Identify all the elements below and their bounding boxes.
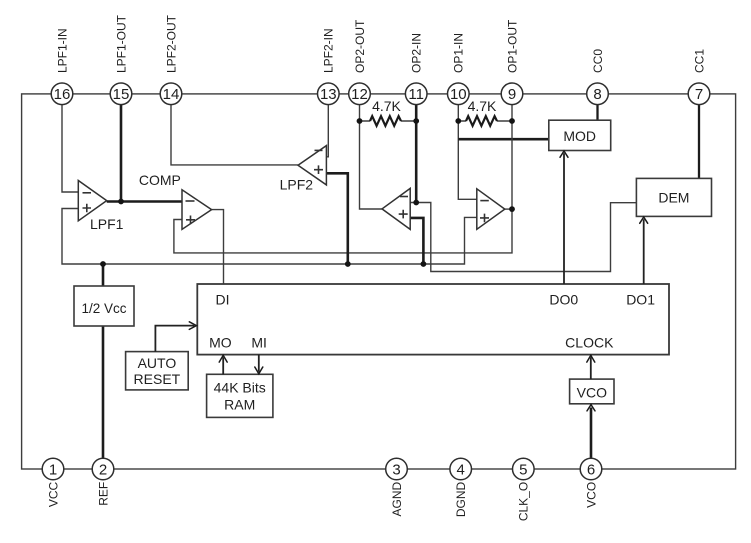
pin 3 AGND	[386, 458, 408, 516]
svg-text:1: 1	[49, 461, 57, 478]
svg-text:VCC: VCC	[46, 481, 60, 507]
svg-text:COMP: COMP	[139, 172, 181, 188]
block AUTO RESET	[126, 352, 189, 390]
svg-text:AUTO: AUTO	[138, 355, 177, 371]
svg-text:CC1: CC1	[692, 49, 706, 73]
resistor R1 4.7K zigzag	[370, 116, 401, 126]
svg-text:15: 15	[113, 86, 130, 103]
op-amp COMP	[139, 172, 212, 230]
block VCO	[570, 379, 614, 404]
svg-text:7: 7	[695, 86, 703, 103]
op-amp OP2 (mirrored)	[382, 188, 410, 229]
pin 4 DGND	[450, 458, 472, 517]
svg-text:MOD: MOD	[563, 128, 596, 144]
svg-text:4: 4	[457, 461, 465, 478]
junction dot LPF2+ on reference line	[345, 261, 351, 267]
junction dot R2 left / pin10	[455, 118, 461, 124]
pin 14 LPF2-OUT	[160, 14, 182, 104]
svg-text:12: 12	[351, 86, 368, 103]
svg-text:CLK_O: CLK_O	[517, 482, 531, 521]
wire pin15 to LPF1 output (bold)	[120, 105, 123, 202]
arrow pin6 to VCO (bold)	[587, 405, 595, 459]
junction dot OP2+ on reference line	[421, 261, 427, 267]
arrow DO0 to MOD	[560, 151, 568, 284]
wire reference node to 1/2 Vcc box	[102, 264, 105, 287]
svg-text:DGND: DGND	[454, 481, 468, 517]
svg-text:OP1-OUT: OP1-OUT	[505, 19, 519, 73]
wire OP2 non-inverting input to reference line (bold)	[410, 218, 423, 264]
wire pin11 to OP2 inverting input (bold)	[415, 105, 418, 203]
wire pin9 to OP1 output	[511, 105, 513, 209]
svg-text:OP1-IN: OP1-IN	[452, 33, 466, 73]
block clock/control	[197, 284, 669, 355]
arrow AUTO RESET to clock block	[155, 322, 196, 352]
svg-text:13: 13	[320, 86, 337, 103]
svg-text:4.7K: 4.7K	[372, 98, 401, 114]
svg-text:6: 6	[587, 461, 595, 478]
junction dot OP1 output	[509, 206, 515, 212]
block DEM	[636, 178, 711, 216]
junction dot OP2 inverting node	[413, 200, 419, 206]
wire pin14 to LPF2 output	[171, 105, 298, 165]
resistor R2 4.7K zigzag	[466, 116, 497, 126]
wire LPF2 non-inverting input to reference line (bold)	[326, 173, 347, 264]
svg-text:16: 16	[54, 86, 71, 103]
svg-text:11: 11	[408, 86, 424, 103]
pin 11 OP2-IN	[405, 33, 427, 105]
op-amp LPF1	[78, 181, 123, 233]
svg-text:44K Bits: 44K Bits	[214, 380, 266, 396]
pin 13 LPF2-IN	[318, 28, 340, 104]
wire COMP output to DI of clock block	[212, 210, 224, 284]
svg-text:9: 9	[508, 86, 516, 103]
junction dot R1 right / pin11	[413, 118, 419, 124]
arrow MI from clock block to RAM	[255, 355, 263, 374]
svg-text:DO1: DO1	[626, 292, 655, 308]
block MOD	[549, 120, 611, 150]
svg-text:4.7K: 4.7K	[468, 98, 497, 114]
svg-text:RAM: RAM	[224, 397, 255, 413]
svg-text:REF: REF	[96, 482, 110, 506]
svg-text:LPF2-IN: LPF2-IN	[322, 28, 336, 73]
wire pin10 to OP1 inverting input	[458, 105, 477, 200]
wire 1/2 Vcc box to pin 2 REF	[102, 325, 105, 458]
junction dot reference to 1/2Vcc	[100, 261, 106, 267]
svg-text:CC0: CC0	[591, 49, 605, 73]
wire pin7 to DEM	[698, 105, 700, 179]
wire COMP non-inverting input to OP1 output node	[174, 209, 512, 253]
svg-text:DO0: DO0	[549, 292, 578, 308]
block 1/2 Vcc	[74, 286, 134, 326]
junction dot pin15/LPF1 output	[118, 199, 124, 205]
op-amp LPF2 (mirrored)	[280, 146, 327, 193]
resistor R1 4.7K leads	[360, 120, 417, 122]
svg-text:LPF1-IN: LPF1-IN	[55, 28, 69, 73]
wire OP2 inverting node to DEM input	[410, 203, 636, 272]
wire OP1 node to MOD input (bold)	[458, 138, 549, 141]
svg-text:AGND: AGND	[390, 481, 404, 516]
svg-text:LPF1-OUT: LPF1-OUT	[114, 14, 128, 73]
junction dot R2 right / pin9	[509, 118, 515, 124]
svg-text:3: 3	[392, 461, 400, 478]
svg-text:LPF1: LPF1	[90, 216, 124, 232]
pin 9 OP1-OUT	[501, 19, 523, 105]
pin 16 LPF1-IN	[51, 28, 73, 104]
svg-text:14: 14	[163, 86, 180, 103]
svg-text:MO: MO	[209, 335, 232, 351]
op-amp OP1	[477, 189, 505, 230]
pin 7 CC1	[688, 49, 710, 105]
wire pin16 to LPF1 inverting input	[62, 105, 78, 192]
svg-text:VCO: VCO	[584, 482, 598, 508]
svg-text:2: 2	[99, 461, 107, 478]
wire pin8 to MOD	[596, 105, 598, 120]
pin 8 CC0	[587, 49, 609, 105]
pin 6 VCO	[580, 458, 602, 508]
svg-text:CLOCK: CLOCK	[565, 335, 614, 351]
svg-text:5: 5	[519, 461, 527, 478]
svg-text:OP2-OUT: OP2-OUT	[353, 19, 367, 73]
svg-text:MI: MI	[251, 335, 267, 351]
wire LPF1 non-inverting input to 1/2Vcc reference line to OP1 non-inverting input	[62, 209, 477, 265]
svg-text:LPF2: LPF2	[280, 177, 314, 193]
resistor R2 4.7K leads	[458, 120, 512, 122]
wire LPF1 output to COMP inverting input (bold)	[107, 200, 182, 203]
wire pin12 to OP2 output	[360, 105, 383, 209]
svg-text:10: 10	[450, 86, 467, 103]
arrow VCO to CLOCK	[587, 355, 595, 379]
svg-text:VCO: VCO	[577, 384, 607, 400]
svg-text:DI: DI	[216, 292, 230, 308]
pin 10 OP1-IN	[448, 33, 470, 105]
svg-text:8: 8	[593, 86, 601, 103]
block 44K Bits RAM	[207, 374, 273, 417]
svg-text:OP2-IN: OP2-IN	[410, 33, 424, 73]
svg-text:1/2 Vcc: 1/2 Vcc	[81, 301, 126, 316]
IC package outline	[22, 94, 736, 469]
pin 12 OP2-OUT	[349, 19, 371, 105]
pin 2 REF	[92, 458, 114, 506]
arrow MO from RAM to clock block	[219, 355, 227, 374]
pin 5 CLK_O	[513, 458, 535, 521]
junction dot R1 left / pin12	[357, 118, 363, 124]
wire pin13 to LPF2 inverting input	[326, 105, 328, 157]
svg-text:LPF2-OUT: LPF2-OUT	[164, 14, 178, 73]
pin 15 LPF1-OUT	[110, 14, 132, 104]
wire OP1 output stub	[505, 208, 512, 210]
svg-text:DEM: DEM	[658, 189, 689, 205]
svg-text:RESET: RESET	[134, 371, 181, 387]
pin 1 VCC	[42, 458, 64, 507]
arrow DO1 to DEM	[640, 217, 648, 284]
